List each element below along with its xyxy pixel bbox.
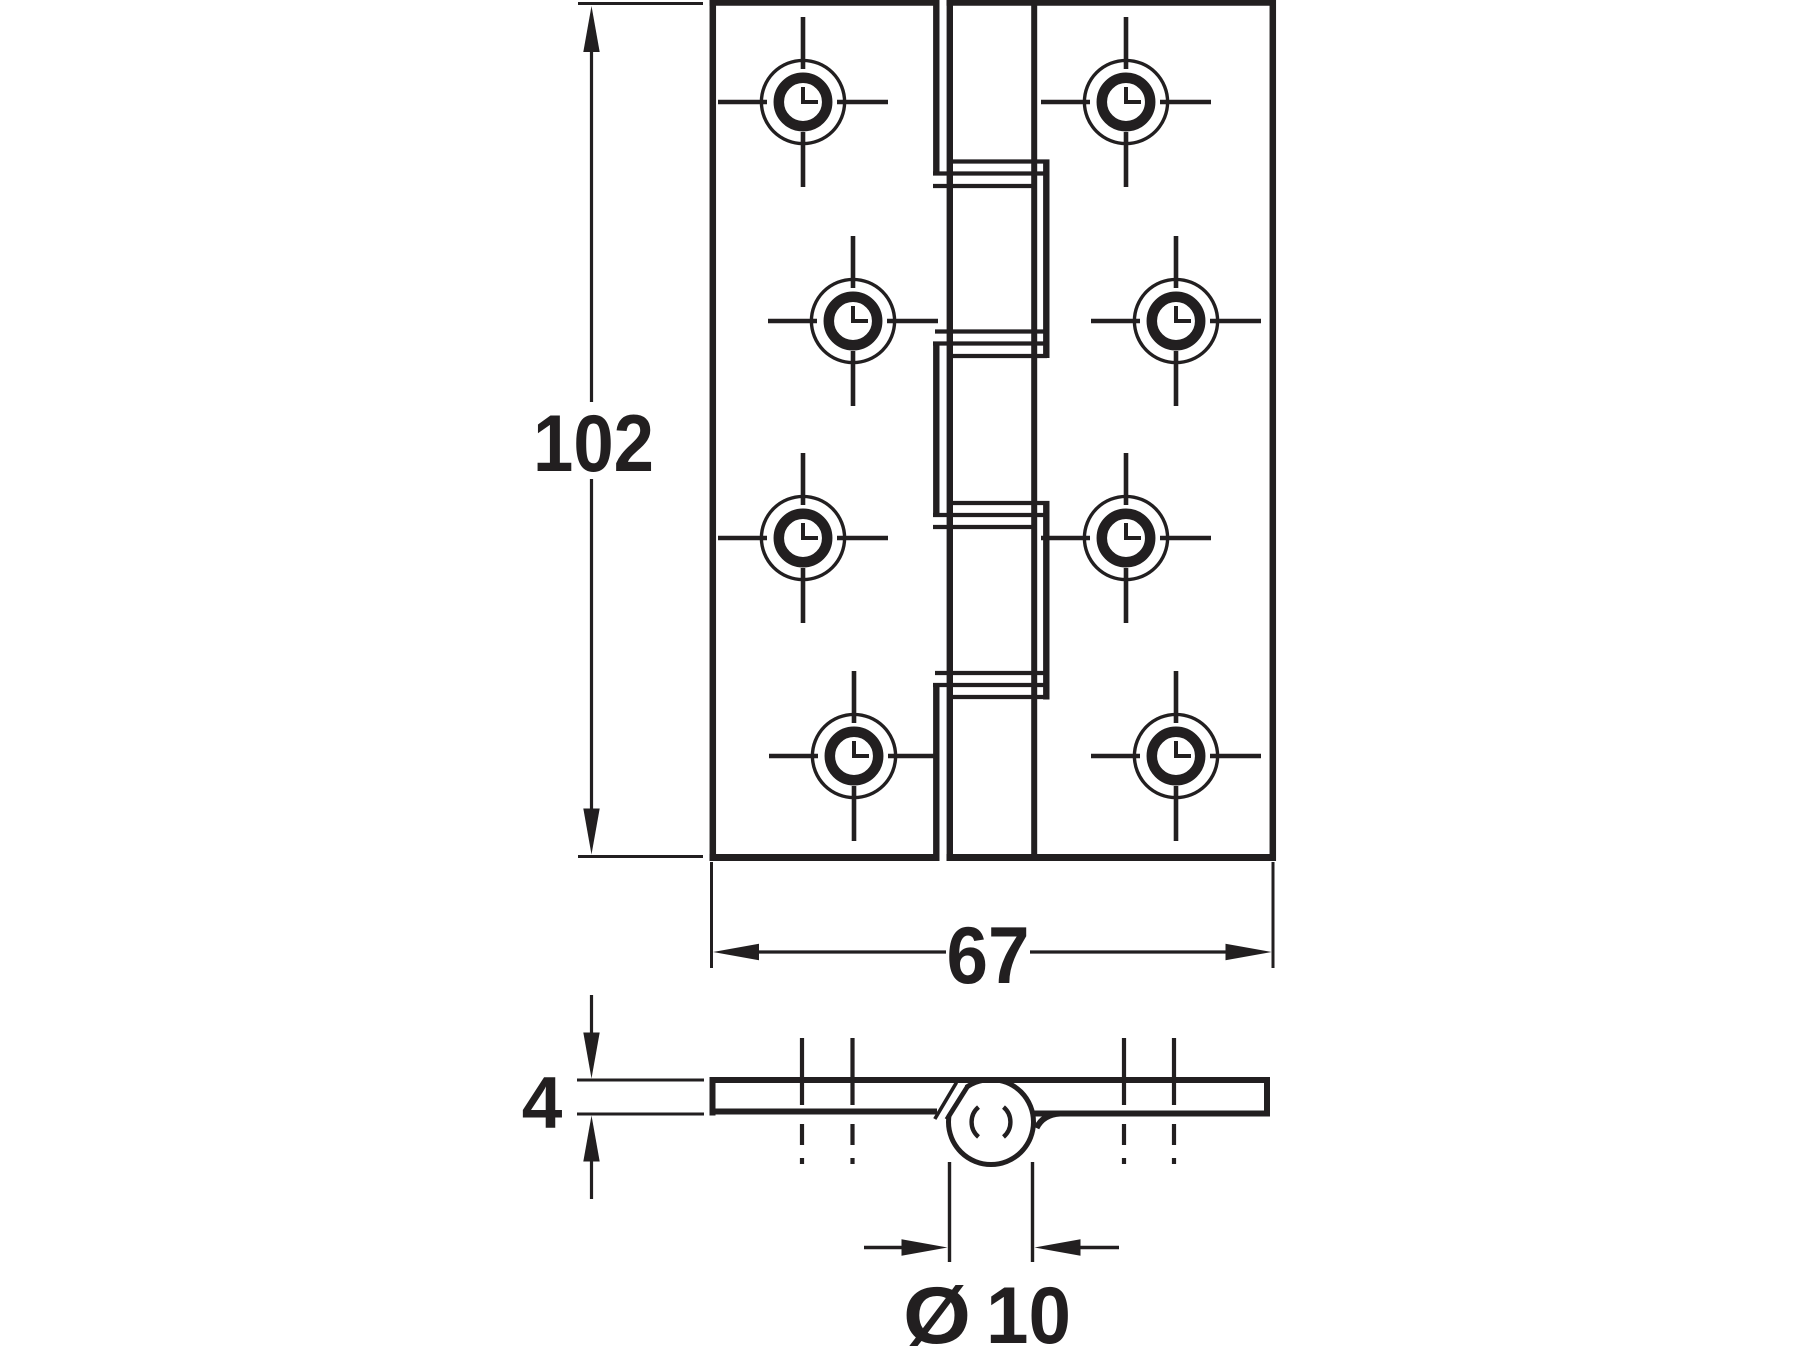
centerline screw R2 dot bbox=[1172, 1158, 1176, 1164]
screw hole R3 inner ring bbox=[1102, 514, 1150, 562]
knuckle junction J4 line C bbox=[948, 695, 1047, 699]
dim 67 extension line right bbox=[1272, 862, 1275, 968]
screw hole L3 outer circle bbox=[761, 496, 844, 579]
knuckle line R2 segment 2 bbox=[1043, 160, 1049, 359]
knuckle line L1 segment 3 bbox=[933, 342, 939, 518]
dia10 extension line left bbox=[948, 1162, 951, 1262]
screw hole R1 slot mark horizontal bbox=[1124, 100, 1141, 104]
screw hole R3 crosshair left ray bbox=[1041, 536, 1090, 541]
screw hole L2 crosshair bottom ray bbox=[851, 351, 856, 406]
svg-text:4: 4 bbox=[522, 1063, 563, 1144]
screw hole L3 crosshair left ray bbox=[718, 536, 767, 541]
screw hole R4 crosshair top ray bbox=[1174, 671, 1179, 723]
screw hole L3 crosshair right ray bbox=[837, 536, 888, 541]
screw hole R3 crosshair bottom ray bbox=[1124, 568, 1129, 623]
centerline screw R1 dash bbox=[1122, 1124, 1126, 1145]
screw hole R1 slot mark vertical bbox=[1124, 87, 1128, 104]
centerline screw L1 solid bbox=[800, 1038, 804, 1105]
hinge front view: right edge bbox=[1270, 0, 1277, 861]
screw hole R4 outer circle bbox=[1134, 714, 1217, 797]
screw hole L4 slot mark vertical bbox=[852, 741, 856, 758]
screw hole R3 crosshair top ray bbox=[1124, 453, 1129, 505]
side view knuckle transition white channel bbox=[941, 1084, 963, 1118]
screw hole L1 crosshair left ray bbox=[718, 100, 767, 105]
screw hole L4 crosshair right ray bbox=[888, 754, 939, 759]
screw hole L1 crosshair right ray bbox=[837, 100, 888, 105]
screw hole R4 crosshair right ray bbox=[1210, 754, 1261, 759]
side view left plate bottom line bbox=[710, 1109, 938, 1115]
screw hole R1 crosshair bottom ray bbox=[1124, 132, 1129, 187]
centerline screw R2 dash bbox=[1172, 1124, 1176, 1145]
dia10 arrow pointing left bbox=[1035, 1239, 1081, 1255]
knuckle junction J2 line C bbox=[948, 354, 1047, 358]
dimension diameter 10 bbox=[864, 1162, 1119, 1262]
knuckle line L1 segment 1 bbox=[933, 3, 939, 176]
dia10 right arrow line bbox=[1078, 1246, 1119, 1249]
screw hole L2 slot mark horizontal bbox=[851, 319, 868, 323]
dim 102 line upper part bbox=[590, 40, 593, 402]
dia10 arrow pointing right bbox=[902, 1239, 948, 1255]
centerline screw L2 solid bbox=[850, 1038, 854, 1105]
knuckle line L1 segment 5 bbox=[933, 683, 939, 858]
screw hole L1 crosshair bottom ray bbox=[801, 132, 806, 187]
side view knuckle outer circle bbox=[949, 1080, 1034, 1165]
knuckle junction J1 line B bbox=[933, 171, 1050, 175]
screw hole L2 crosshair top ray bbox=[851, 236, 856, 288]
side view knuckle transition diagonal 2 bbox=[947, 1087, 968, 1120]
svg-text:102: 102 bbox=[533, 399, 654, 489]
centerline screw L2 dot bbox=[850, 1158, 854, 1164]
screw hole L4 slot mark horizontal bbox=[852, 754, 869, 758]
dimension 102 bbox=[578, 4, 703, 857]
screw hole R4 slot mark vertical bbox=[1174, 741, 1178, 758]
screw hole R1 crosshair right ray bbox=[1160, 100, 1211, 105]
screw hole L4 crosshair top ray bbox=[852, 671, 857, 723]
screw hole R1 inner ring bbox=[1102, 78, 1150, 126]
hinge front view: top edge left segment bbox=[710, 0, 940, 6]
screw hole L1 slot mark vertical bbox=[801, 87, 805, 104]
screw hole L4 inner ring bbox=[830, 732, 878, 780]
svg-text:10: 10 bbox=[986, 1271, 1071, 1350]
side view pin hole left arc bbox=[972, 1107, 979, 1137]
knuckle junction J1 line A bbox=[948, 159, 1050, 163]
screw hole L2 slot mark vertical bbox=[851, 306, 855, 323]
side view bbox=[710, 1077, 1271, 1165]
screw hole L3 crosshair top ray bbox=[801, 453, 806, 505]
screw hole R3 slot mark vertical bbox=[1124, 523, 1128, 540]
dim 102 line lower part bbox=[590, 479, 593, 820]
knuckle line R1 full height bbox=[1031, 3, 1037, 858]
side view pin hole right arc bbox=[1004, 1107, 1011, 1137]
side view right plate knuckle curl bbox=[1037, 1114, 1061, 1129]
screw hole L1 outer circle bbox=[761, 60, 844, 143]
dia10 left arrow line bbox=[864, 1246, 905, 1249]
knuckle line L2 full height bbox=[947, 3, 953, 858]
dim 4 extension line bottom bbox=[577, 1113, 704, 1116]
side view knuckle transition diagonal 1 bbox=[935, 1083, 957, 1120]
screw hole R2 slot mark vertical bbox=[1174, 306, 1178, 323]
knuckle line R2 segment 4 bbox=[1043, 501, 1049, 700]
dim 67 line right part bbox=[1030, 950, 1240, 953]
screw hole L3 slot mark vertical bbox=[801, 523, 805, 540]
side view left end cap bbox=[710, 1077, 716, 1116]
dim 4 extension line top bbox=[577, 1079, 704, 1082]
centerline screw R1 solid bbox=[1122, 1038, 1126, 1105]
screw hole R2 crosshair left ray bbox=[1091, 319, 1140, 324]
screw hole R1 outer circle bbox=[1084, 60, 1167, 143]
screw hole R2 outer circle bbox=[1134, 279, 1217, 362]
dim 4 arrow up tip bbox=[583, 1116, 599, 1162]
dim 67 line left part bbox=[745, 950, 946, 953]
knuckle junction J1 line C bbox=[933, 184, 1037, 188]
screw hole R2 crosshair top ray bbox=[1174, 236, 1179, 288]
centerline screw R2 solid bbox=[1172, 1038, 1176, 1105]
dim 102 arrow up bbox=[583, 6, 599, 52]
dim 102 arrow down bbox=[583, 809, 599, 855]
dim 4 arrow down tip bbox=[583, 1033, 599, 1079]
screw hole L3 crosshair bottom ray bbox=[801, 568, 806, 623]
screw hole L4 crosshair left ray bbox=[769, 754, 818, 759]
screw hole L4 outer circle bbox=[812, 714, 895, 797]
screw hole R4 inner ring bbox=[1152, 732, 1200, 780]
dia10 extension line right bbox=[1031, 1162, 1034, 1262]
screw hole R1 crosshair left ray bbox=[1041, 100, 1090, 105]
screw hole L4 crosshair bottom ray bbox=[852, 786, 857, 841]
dim 102 extension line top bbox=[578, 2, 703, 5]
screw hole L1 slot mark horizontal bbox=[801, 100, 818, 104]
knuckle junction J3 line B bbox=[933, 513, 1050, 517]
screw hole R4 slot mark horizontal bbox=[1174, 754, 1191, 758]
centerline screw R1 dot bbox=[1122, 1158, 1126, 1164]
knuckle junction J4 line A bbox=[935, 671, 1047, 675]
knuckle junction J3 line A bbox=[948, 501, 1050, 505]
svg-text:67: 67 bbox=[947, 911, 1030, 1001]
svg-text:Ø: Ø bbox=[903, 1271, 971, 1350]
centerline screw L1 dot bbox=[800, 1158, 804, 1164]
screw hole L2 crosshair left ray bbox=[768, 319, 817, 324]
screw hole L1 inner ring bbox=[779, 78, 827, 126]
knuckle junction J2 line B bbox=[933, 341, 1050, 345]
side view right end cap bbox=[1264, 1077, 1270, 1117]
screw hole R3 outer circle bbox=[1084, 496, 1167, 579]
screw hole L3 inner ring bbox=[779, 514, 827, 562]
side view right plate bottom line bbox=[1033, 1111, 1270, 1117]
knuckle junction J4 line B bbox=[933, 683, 1050, 687]
knuckle junction J3 line C bbox=[933, 525, 1037, 529]
dim 67 extension line left bbox=[710, 862, 713, 968]
dim 67 arrow left bbox=[713, 944, 759, 960]
dimension 67 bbox=[712, 862, 1274, 968]
screw hole R2 slot mark horizontal bbox=[1174, 319, 1191, 323]
hinge front view: left edge bbox=[710, 0, 717, 861]
knuckle junction J2 line A bbox=[935, 329, 1047, 333]
screw hole R2 inner ring bbox=[1152, 297, 1200, 345]
screw hole R2 crosshair right ray bbox=[1210, 319, 1261, 324]
dimension 4 bbox=[577, 995, 704, 1199]
hinge front view: bottom edge left segment bbox=[710, 854, 940, 861]
dim 67 arrow right bbox=[1226, 944, 1272, 960]
centerline screw L1 dash bbox=[800, 1124, 804, 1145]
dim 4 upper arrow line bbox=[590, 995, 593, 1040]
side view plate top line bbox=[710, 1077, 1271, 1083]
hinge front view: bottom edge right segment bbox=[947, 854, 1277, 861]
side view screw centerlines bbox=[802, 1038, 1174, 1164]
screw hole R4 crosshair bottom ray bbox=[1174, 786, 1179, 841]
screw hole R1 crosshair top ray bbox=[1124, 17, 1129, 69]
screw hole R2 crosshair bottom ray bbox=[1174, 351, 1179, 406]
screw hole L3 slot mark horizontal bbox=[801, 536, 818, 540]
dim 4 lower arrow line bbox=[590, 1155, 593, 1199]
screw hole L2 outer circle bbox=[811, 279, 894, 362]
screw holes bbox=[718, 17, 1261, 841]
hinge front view: top edge right segment bbox=[947, 0, 1277, 6]
centerline screw L2 dash bbox=[850, 1124, 854, 1145]
screw hole L2 crosshair right ray bbox=[887, 319, 938, 324]
dim 102 extension line bottom bbox=[578, 855, 703, 858]
screw hole R3 crosshair right ray bbox=[1160, 536, 1211, 541]
screw hole L1 crosshair top ray bbox=[801, 17, 806, 69]
screw hole R3 slot mark horizontal bbox=[1124, 536, 1141, 540]
screw hole R4 crosshair left ray bbox=[1091, 754, 1140, 759]
screw hole L2 inner ring bbox=[829, 297, 877, 345]
